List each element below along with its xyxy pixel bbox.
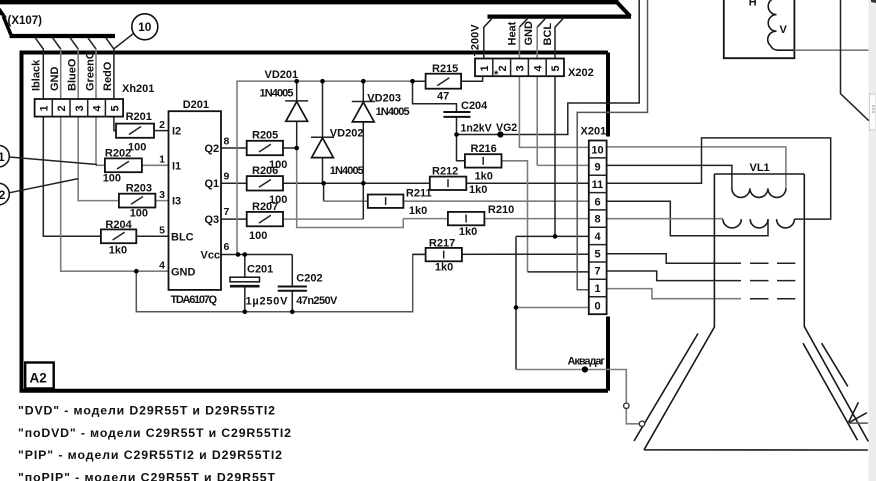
svg-text:"DVD" - модели D29R55T и D29R: "DVD" - модели D29R55T и D29R55TI2 xyxy=(18,403,275,417)
svg-text:C204: C204 xyxy=(461,100,488,112)
wire R211 row to X201 pin6 xyxy=(324,200,589,202)
connector Xh201 xyxy=(35,99,124,117)
wire X201 pin6 to cathode mid xyxy=(607,201,769,236)
ref bubble 12 xyxy=(0,183,9,205)
wire VD202 vertical xyxy=(322,81,324,183)
wire C204 lead from rail xyxy=(413,81,457,111)
svg-text:X202: X202 xyxy=(568,67,594,79)
svg-text:R204: R204 xyxy=(105,219,132,231)
svg-text:1k0: 1k0 xyxy=(109,245,127,257)
svg-text:3: 3 xyxy=(515,65,527,71)
resistor R202 xyxy=(105,158,142,172)
wire pin3 to R203 / IC pin3 I3 xyxy=(78,117,168,201)
wire top-right cut xyxy=(841,0,869,121)
svg-text:R201: R201 xyxy=(126,111,152,123)
wire +200V drop to X202 pin1 xyxy=(483,27,485,59)
svg-text:47n250V: 47n250V xyxy=(296,295,338,307)
svg-text:1: 1 xyxy=(479,65,491,71)
CRT heater filament xyxy=(732,188,786,197)
svg-text:RedO: RedO xyxy=(102,61,114,91)
svg-text:1k0: 1k0 xyxy=(435,261,453,273)
svg-text:11: 11 xyxy=(592,179,604,191)
IC D201 TDA6107Q xyxy=(169,111,222,290)
wire Q1 branch to R211 xyxy=(323,183,325,201)
svg-text:C201: C201 xyxy=(247,263,273,275)
wire X202 pin5 BCL down xyxy=(554,76,556,236)
wire X201 pin5 to grid1 xyxy=(607,254,742,263)
svg-text:4: 4 xyxy=(159,259,165,271)
wire BlueO (Xh201 pin3) xyxy=(77,49,79,100)
grid2 dashes xyxy=(750,280,795,282)
svg-text:8: 8 xyxy=(224,135,230,147)
svg-text:5: 5 xyxy=(594,248,600,260)
wire X201 pin4 row xyxy=(516,235,589,237)
diode VD201 xyxy=(285,101,308,121)
wire aquadag lead xyxy=(516,370,641,424)
wire pin4 to R202 / IC pin1 I1 xyxy=(96,117,169,166)
CRT aquadag coating right xyxy=(803,343,858,440)
svg-text:R203: R203 xyxy=(126,183,152,195)
svg-text:6: 6 xyxy=(594,196,600,208)
resistor R207 xyxy=(247,212,283,226)
resistor R201 xyxy=(116,124,154,138)
wire R210 row to X201 pin8 xyxy=(403,218,589,220)
svg-text:1N4005: 1N4005 xyxy=(376,106,410,118)
aquadag connection circle on vertical xyxy=(624,403,629,408)
wire VD203 vertical xyxy=(362,81,364,219)
node Vcc/rail junction xyxy=(236,252,241,257)
wire VG2 line out (to top of sheet) xyxy=(457,0,640,135)
main frame A2 sheet border xyxy=(22,53,609,391)
capacitor C201 (polarized) xyxy=(230,277,260,286)
IC pin names xyxy=(171,125,220,278)
scrollbar track xyxy=(869,0,876,481)
grid3 dashes xyxy=(750,298,795,300)
bus entry diagonals Xh201 xyxy=(35,38,114,49)
grid1 dashes xyxy=(750,262,795,264)
svg-text:4: 4 xyxy=(92,105,104,112)
node VG2 dot xyxy=(497,131,503,137)
svg-text:R210: R210 xyxy=(488,204,514,216)
svg-text:10: 10 xyxy=(591,144,603,156)
svg-text:5: 5 xyxy=(550,65,562,71)
svg-text:1N4005: 1N4005 xyxy=(260,88,294,100)
svg-text:Q1: Q1 xyxy=(205,178,220,190)
pin numbers X201 xyxy=(591,144,603,312)
svg-text:I3: I3 xyxy=(172,195,181,207)
wire Q3 row (IC pin7 - R207 - VD203) xyxy=(169,218,249,220)
resistor R210 xyxy=(448,212,485,225)
svg-text:A2: A2 xyxy=(30,371,47,386)
wire GreenO (Xh201 pin4) xyxy=(95,49,97,100)
svg-text:BlueO: BlueO xyxy=(67,58,79,91)
svg-text:BLC: BLC xyxy=(171,231,194,243)
wire GND rail bottom xyxy=(136,254,425,311)
svg-text:R212: R212 xyxy=(432,165,458,177)
svg-text:100: 100 xyxy=(249,230,267,242)
svg-text:5: 5 xyxy=(159,225,165,237)
resistor R211 xyxy=(368,195,404,208)
resistor R206 xyxy=(247,176,283,190)
resistor R205 xyxy=(247,141,283,155)
svg-text:1: 1 xyxy=(39,105,51,111)
svg-text:Xh201: Xh201 xyxy=(122,83,154,95)
svg-text:"поDVD" - модели C29R55T и C29: "поDVD" - модели C29R55T и C29R55TI2 xyxy=(18,426,291,440)
wire X201 pin9 to heater left xyxy=(607,165,732,188)
svg-text:9: 9 xyxy=(594,162,600,174)
A2 label box xyxy=(25,363,54,389)
svg-text:R207: R207 xyxy=(252,201,278,213)
svg-text:9: 9 xyxy=(224,170,230,182)
svg-text:"PIP" - модели C29R55TI2 и D29: "PIP" - модели C29R55TI2 и D29R55TI2 xyxy=(18,448,282,462)
svg-text:11: 11 xyxy=(0,150,5,164)
wire Q2 branch to R210 xyxy=(297,148,404,228)
wire Heat drop to X202 pin3 xyxy=(518,27,520,59)
svg-text:C202: C202 xyxy=(296,272,322,284)
wire X202 pin4 to X201 pin9 xyxy=(537,76,589,165)
svg-text:2: 2 xyxy=(159,119,165,131)
svg-text:GreenO: GreenO xyxy=(85,50,97,91)
wire C204 to VG2 node xyxy=(456,117,458,134)
wire X201 pin7 to grid2 xyxy=(607,271,742,281)
svg-text:2: 2 xyxy=(56,105,68,111)
svg-text:Аквадаг: Аквадаг xyxy=(568,355,606,367)
svg-text:1N4005: 1N4005 xyxy=(330,165,364,177)
svg-text:1k0: 1k0 xyxy=(409,205,427,217)
node rail/VD203 junction xyxy=(361,79,366,84)
svg-text:"поPIP" - модели C29R55T и D29: "поPIP" - модели C29R55T и D29R55T xyxy=(18,470,275,481)
wire C201 leads xyxy=(244,255,246,312)
svg-text:Q2: Q2 xyxy=(205,143,220,155)
svg-text:1k0: 1k0 xyxy=(469,184,487,196)
node rail/VD202 junction xyxy=(320,79,325,84)
svg-text:4: 4 xyxy=(594,231,601,243)
resistor R204 xyxy=(101,229,136,243)
svg-text:1: 1 xyxy=(159,154,165,166)
deflection yoke box xyxy=(724,0,795,58)
wire X201 pin8 to cathode left xyxy=(607,218,723,220)
wire C202 leads xyxy=(291,255,293,312)
wire X201 pin10 to heater right xyxy=(607,147,786,189)
node VD203/Q1 junction xyxy=(361,181,366,186)
ref bubble 10 xyxy=(114,14,158,49)
svg-text:*: * xyxy=(494,69,499,81)
svg-text:1k0: 1k0 xyxy=(475,170,493,182)
svg-text:100: 100 xyxy=(130,208,148,220)
resistor R215 xyxy=(426,74,462,89)
svg-text:8: 8 xyxy=(594,214,600,226)
deflection yoke V coil xyxy=(768,0,795,50)
svg-text:Q3: Q3 xyxy=(205,214,220,226)
svg-text:0: 0 xyxy=(594,300,600,312)
wire R217 row (GND to X201 pin5) xyxy=(413,253,589,255)
svg-text:1: 1 xyxy=(594,283,600,295)
svg-text:+200V: +200V xyxy=(470,24,482,57)
svg-text:VD201: VD201 xyxy=(265,69,299,81)
ref bubble 11 xyxy=(0,145,9,167)
bus entry diagonals X202 xyxy=(484,19,563,28)
wire BCL net down to aquadag xyxy=(515,236,517,369)
svg-text:D201: D201 xyxy=(183,99,209,111)
svg-text:R205: R205 xyxy=(252,130,278,142)
svg-text:R206: R206 xyxy=(252,165,278,177)
svg-text:X201: X201 xyxy=(581,126,607,138)
node rail/R215 junction xyxy=(410,79,415,84)
wire VD201 vertical xyxy=(296,81,298,148)
svg-text:R202: R202 xyxy=(105,148,131,160)
node pin0 junction xyxy=(514,305,519,310)
pin numbers X202 xyxy=(479,65,562,72)
node VD202/Q1 junction xyxy=(321,181,326,186)
resistor R216 xyxy=(465,154,502,167)
svg-text:10: 10 xyxy=(138,20,152,34)
bus to (X107) with arrow xyxy=(0,8,115,37)
ref bubble 12 leader xyxy=(9,179,78,193)
wire GND drop to X202 pin4 xyxy=(536,27,538,59)
wire Vcc row (IC pin6 - C201 - C202) xyxy=(169,254,293,256)
wire X201 pin1 net (to top of sheet) xyxy=(577,0,647,290)
svg-text:TDA6107Q: TDA6107Q xyxy=(171,294,218,306)
CRT anode arrow xyxy=(848,402,868,423)
svg-text:Iblack: Iblack xyxy=(31,59,43,91)
top supply bus (thick) xyxy=(0,2,631,16)
svg-text:BCL: BCL xyxy=(542,23,554,46)
svg-text:12: 12 xyxy=(0,188,6,202)
svg-text:VL1: VL1 xyxy=(750,162,770,174)
svg-text:1n2kV: 1n2kV xyxy=(461,122,492,134)
diode VD202 xyxy=(311,137,334,157)
svg-text:R216: R216 xyxy=(471,143,497,155)
wire pin5 to R201 / IC pin2 I2 xyxy=(114,117,169,131)
svg-text:3: 3 xyxy=(159,189,165,201)
svg-text:H: H xyxy=(749,0,757,9)
node rail/C201 junction xyxy=(243,310,248,315)
node rail/VD201 junction xyxy=(294,79,299,84)
wire pin1 to R204 / IC pin5 BLC xyxy=(43,117,168,237)
svg-text:GND: GND xyxy=(523,21,535,46)
connector X201 xyxy=(589,141,607,315)
svg-text:R215: R215 xyxy=(432,63,458,75)
CRT cathode B xyxy=(777,219,795,228)
wire X201 pin0 row xyxy=(516,307,589,309)
svg-text:7: 7 xyxy=(594,266,600,278)
node aquadag dot xyxy=(582,366,588,372)
connector X202 xyxy=(475,59,564,77)
svg-text:VD202: VD202 xyxy=(330,128,364,140)
diode VD203 xyxy=(352,102,375,122)
svg-text:1µ250V: 1µ250V xyxy=(246,296,289,308)
svg-text:I2: I2 xyxy=(172,125,181,137)
wire +200V rail xyxy=(237,81,413,254)
aquadag connection circle on coating xyxy=(639,421,644,426)
svg-text:4: 4 xyxy=(532,65,544,72)
CRT tube VL1 envelope xyxy=(644,174,868,450)
svg-text:(X107): (X107) xyxy=(8,15,43,27)
wire X202 pin3 to X201 pin10 xyxy=(519,76,588,147)
svg-text:R211: R211 xyxy=(406,187,432,199)
CRT aquadag coating left xyxy=(634,334,698,442)
svg-text:7: 7 xyxy=(224,206,230,218)
svg-text:V: V xyxy=(780,24,788,36)
capacitor C204 xyxy=(443,112,470,117)
node GND junction xyxy=(134,269,139,274)
wire pin2 to IC pin4 GND xyxy=(61,117,169,272)
node VD201/Q2 junction xyxy=(294,146,299,151)
ref bubble 11 leader xyxy=(9,157,97,165)
resistor R217 xyxy=(426,248,462,261)
wire Q2 row (IC pin8 to R205/VD201) xyxy=(169,147,297,149)
CRT cathode G xyxy=(750,219,768,228)
wire R216 output to X201 pin7 xyxy=(502,161,528,272)
svg-text:GND: GND xyxy=(171,267,196,279)
svg-text:Vcc: Vcc xyxy=(201,250,221,262)
capacitor C202 xyxy=(278,287,307,291)
wire GND (Xh201 pin2) xyxy=(60,49,62,100)
pin numbers Xh201 xyxy=(39,105,122,112)
IC pin numbers xyxy=(159,119,229,272)
wire X201 pin11 to cathode right xyxy=(607,138,831,219)
svg-text:5: 5 xyxy=(109,105,121,111)
svg-text:1k0: 1k0 xyxy=(459,226,477,238)
svg-text:VD203: VD203 xyxy=(367,92,401,104)
svg-text:3: 3 xyxy=(74,105,86,111)
resistor R203 xyxy=(119,194,155,208)
resistor R212 xyxy=(430,177,467,190)
svg-text:I1: I1 xyxy=(172,160,181,172)
svg-text:Heat: Heat xyxy=(507,21,519,45)
svg-text:R217: R217 xyxy=(429,237,455,249)
node Vcc/C201 junction xyxy=(243,252,248,257)
wire Iblack (Xh201 pin1) xyxy=(42,49,44,100)
wire X201 pin1 to grid3 xyxy=(607,289,742,299)
wire RedO (Xh201 pin5) xyxy=(113,49,115,100)
svg-text:VG2: VG2 xyxy=(496,122,517,134)
wire R215 row to X202 pin1 xyxy=(413,76,483,81)
node BCL/pin4 junction xyxy=(553,234,558,239)
wire Q1 row (IC pin9 - R206 - VD202 - VD203 - R212 - X201 pin11) xyxy=(169,182,589,184)
svg-text:GND: GND xyxy=(49,67,61,92)
wire R216 input xyxy=(457,135,465,161)
svg-text:100: 100 xyxy=(103,173,121,185)
wire yoke heater feed xyxy=(794,49,868,51)
svg-text:2: 2 xyxy=(497,65,509,71)
svg-text:47: 47 xyxy=(437,90,449,102)
wire BCL drop to X202 pin5 xyxy=(554,27,556,59)
CRT cathode R xyxy=(723,219,741,228)
node C204/R216 junction xyxy=(454,132,459,137)
svg-text:6: 6 xyxy=(224,241,230,253)
node rail/C202 junction xyxy=(290,310,295,315)
